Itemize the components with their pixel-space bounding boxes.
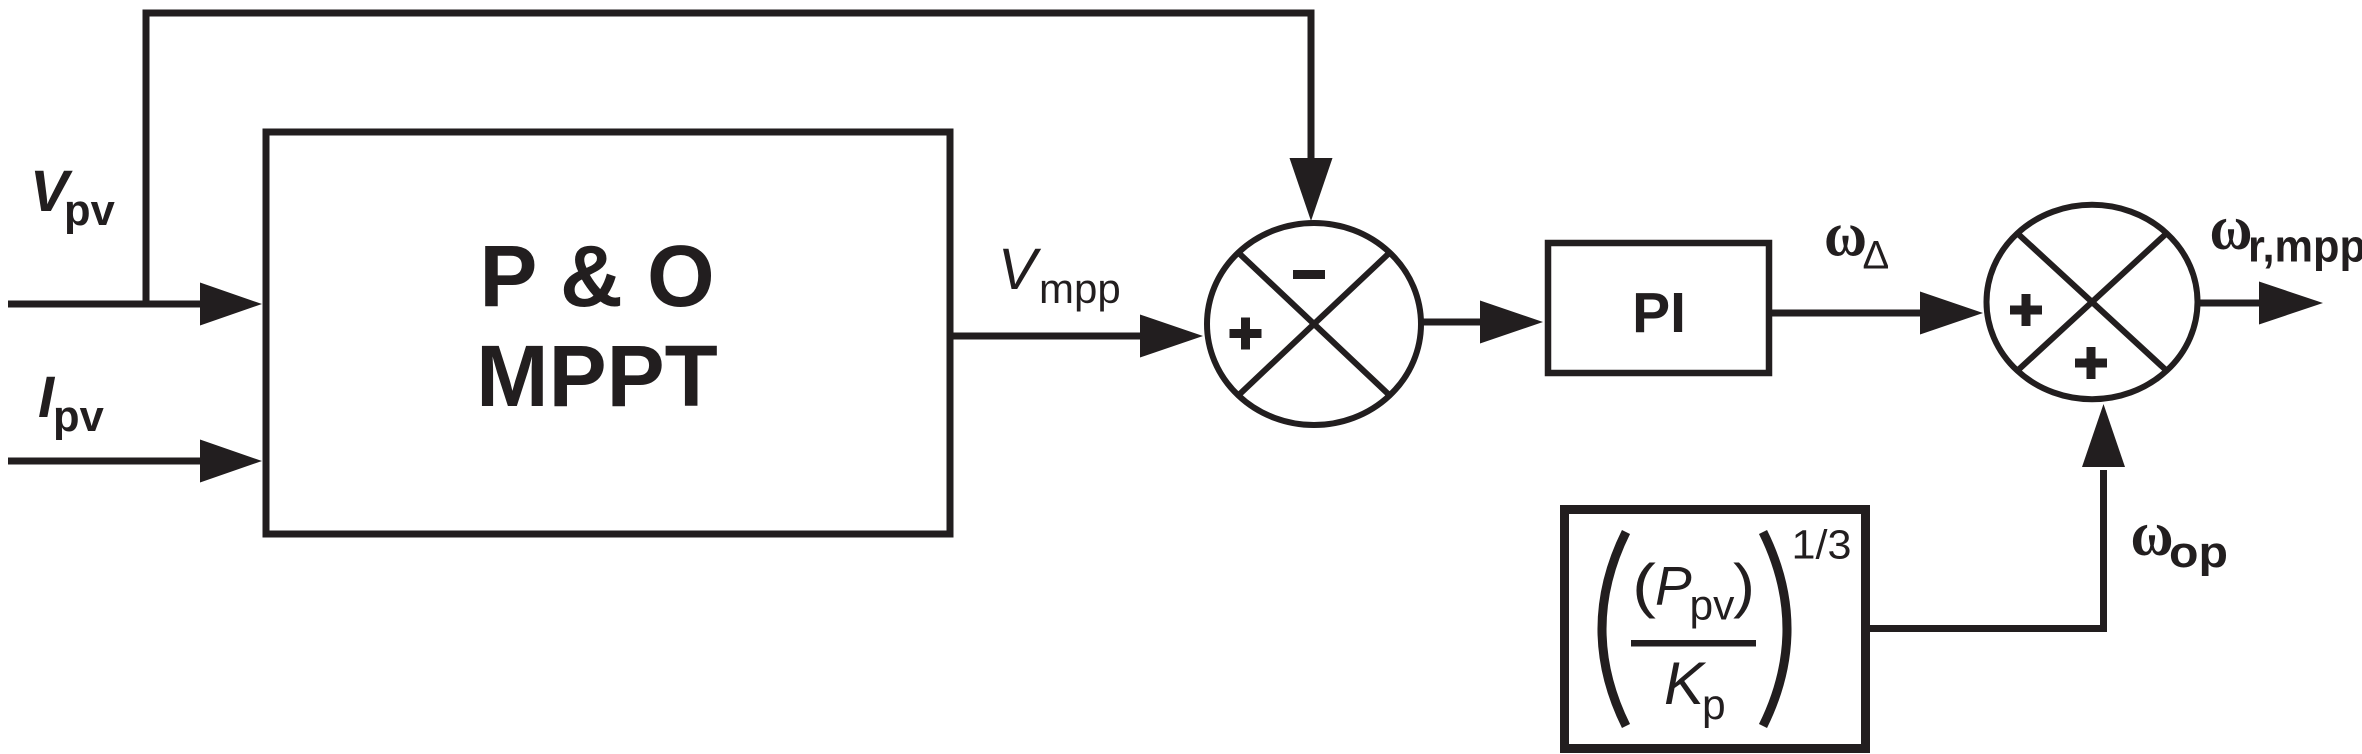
svg-text:1/3: 1/3 bbox=[1792, 522, 1852, 568]
svg-text:PI: PI bbox=[1632, 281, 1686, 345]
wire S2 output (omega r,mpp) bbox=[2197, 282, 2323, 325]
label Vpv bbox=[30, 159, 115, 235]
wire Vpv feedback (left vertical, top horizontal, down into S1) bbox=[146, 13, 1333, 304]
wire Vmpp (block output into S1) bbox=[953, 315, 1203, 358]
svg-text:ω: ω bbox=[2131, 499, 2174, 569]
svg-text:pv: pv bbox=[53, 393, 104, 441]
svg-text:): ) bbox=[1733, 552, 1755, 619]
svg-text:p: p bbox=[1702, 682, 1726, 729]
svg-text:r,mpp: r,mpp bbox=[2248, 221, 2362, 272]
svg-text:MPPT: MPPT bbox=[476, 328, 718, 425]
wire omega-op (cube-root block up into S2) bbox=[1870, 404, 2125, 629]
svg-text:ω: ω bbox=[2210, 193, 2253, 263]
wire S1 to PI bbox=[1421, 301, 1543, 344]
wire PI to S2 bbox=[1772, 292, 1983, 335]
svg-text:K: K bbox=[1664, 650, 1707, 717]
wire Vpv input bbox=[8, 283, 262, 326]
summing junction S2 bbox=[1987, 205, 2198, 399]
summing junction S1 bbox=[1207, 223, 1421, 425]
label omega r,mpp bbox=[2210, 193, 2362, 272]
label omega-delta bbox=[1824, 200, 1889, 278]
svg-text:(: ( bbox=[1632, 552, 1656, 619]
svg-text:mpp: mpp bbox=[1039, 265, 1121, 312]
svg-text:op: op bbox=[2169, 528, 2228, 577]
block PI bbox=[1548, 243, 1769, 373]
wire Ipv input bbox=[8, 440, 262, 483]
svg-text:Δ: Δ bbox=[1863, 234, 1890, 278]
label Vmpp bbox=[998, 237, 1121, 312]
block P & O MPPT bbox=[266, 132, 950, 534]
svg-text:V: V bbox=[998, 237, 1042, 302]
svg-text:ω: ω bbox=[1824, 200, 1867, 270]
svg-text:P & O: P & O bbox=[479, 228, 714, 325]
svg-text:P: P bbox=[1655, 555, 1692, 617]
svg-text:pv: pv bbox=[1690, 583, 1736, 630]
block cube-root ((Ppv)/Kp)^(1/3) bbox=[1565, 510, 1866, 749]
label Ipv bbox=[38, 365, 104, 441]
svg-text:pv: pv bbox=[64, 187, 115, 235]
label omega-op bbox=[2131, 499, 2229, 577]
